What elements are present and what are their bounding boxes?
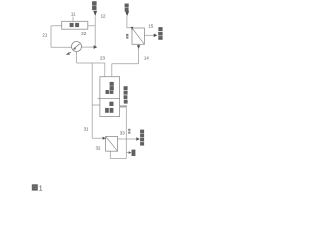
membrane M2 diagonal [106,136,118,151]
column U1 divider [98,98,120,100]
text concentrate char1 [158,27,162,31]
text column right char2 [124,91,128,95]
text column right char4 [124,100,128,104]
text column bottom char3 [110,108,114,113]
text dosing char1 [125,4,129,8]
text column top char2 [110,86,114,90]
svg-text:33: 33 [120,130,125,135]
membrane M1 diagonal [132,28,144,44]
wire drain stub right [126,152,129,154]
pump drain arrow line [68,52,71,53]
wire into column top left [104,63,106,77]
arrowhead product right [136,137,140,140]
arrowhead pump outlet right [94,45,98,49]
pump P1 circle [72,42,82,52]
text column bottom char2 [105,108,109,113]
text column top char1 [110,82,114,86]
svg-text:21: 21 [42,33,47,38]
wire loop top horizontal [51,25,62,27]
membrane module M1 square [132,28,144,44]
figure char inner texture [33,186,37,188]
text figure char [32,184,38,190]
text concentrate char3 [158,36,162,40]
svg-text:1: 1 [39,186,43,193]
wire into bottom membrane [92,137,103,139]
text drain blob [132,150,136,156]
wire dosing inlet vertical [127,16,132,28]
text column top char4 [110,90,114,94]
svg-text:32: 32 [96,146,101,151]
text raw water char1 [92,1,97,5]
arrowhead dosing inlet down [125,11,129,16]
svg-text:14: 14 [144,55,149,60]
text product char1 [140,130,144,134]
mini label left of membrane1 [126,34,128,36]
arrowhead membrane1 down [137,45,140,49]
wire pump bottom horizontal [77,62,105,64]
text product char2 [140,134,144,138]
wire pump outlet right [81,46,93,48]
text product char3 [140,138,144,142]
arrowhead drain stub [129,151,132,154]
svg-text:22: 22 [81,31,86,36]
arrowhead pump drain [66,52,70,55]
wire concentrate outlet [144,34,153,36]
text column bottom char1 [109,102,113,106]
text tank char1 [70,23,74,27]
pump P1 inner vane [73,44,79,49]
exchange column U1 box [100,77,120,117]
wire column outlet vertical [125,108,127,158]
wire loop left vertical [50,26,52,48]
svg-text:15: 15 [148,24,153,29]
arrowhead concentrate right [154,34,158,38]
arrowhead membrane2 inlet [103,137,106,140]
pump P1 inner hub [73,47,76,49]
arrowhead membrane1 entry corner [131,27,134,30]
text tank char2 [75,23,79,27]
leader label 11 [72,17,74,22]
text concentrate char2 [158,32,162,36]
text product char4 [140,142,144,146]
wire tank right to raw line [88,25,95,27]
svg-text:31: 31 [84,126,89,131]
text dosing char2 [125,8,129,12]
tank T1 rectangle [62,21,88,29]
arrowhead raw water down [93,11,97,16]
wire loop bottom horizontal to pump [51,46,72,48]
wire membrane1 permeate horizontal [112,63,139,65]
wire product outlet [118,138,137,140]
wire long left vertical [91,63,93,138]
membrane module M2 square [106,136,118,151]
svg-text:11: 11 [71,12,76,17]
wire raw water vertical [94,16,96,47]
wire into column top right [111,64,113,77]
text column top char3 [106,90,109,94]
wire membrane2 drain down [109,151,111,158]
svg-text:23: 23 [100,55,105,60]
wire membrane1 bottom down [138,44,140,64]
wire pump bottom down [76,51,78,63]
text column right char1 [124,86,128,90]
wire column left inlet [92,104,100,106]
wire drain horizontal [110,157,126,159]
text raw water char2 [92,6,96,10]
mini label right of column outlet [128,129,130,131]
text column right char3 [124,95,128,99]
svg-text:12: 12 [101,13,106,18]
column right stub bar [120,105,127,107]
